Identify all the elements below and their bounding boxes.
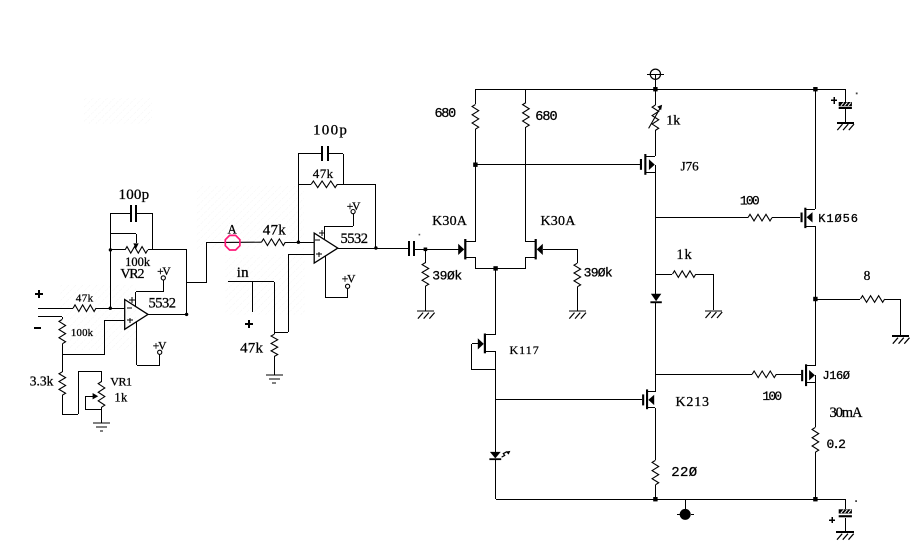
wire K1056 source to output node (815, 226, 817, 299)
wire J160 source to 0.2 (815, 375, 817, 427)
ground (top cap) (837, 122, 854, 124)
wire input + to 47k (38, 308, 73, 310)
resistor 100 (K1056 gate) (748, 214, 772, 221)
resistor 680 (left) (475, 89, 477, 104)
wire feedback right vertical (152, 213, 154, 250)
svg-text:22Ø: 22Ø (671, 465, 697, 481)
node 0.2/rail (813, 497, 817, 501)
ground (right 390k) (569, 310, 586, 312)
wire output node to J160 (815, 299, 817, 366)
svg-text:K30A: K30A (541, 214, 577, 229)
wire node A row (226, 241, 262, 243)
wire 100k bottom to 3.3k (62, 355, 64, 372)
resistor 390k (right gate) (577, 249, 579, 263)
node 220/rail (653, 497, 657, 501)
svg-text:680: 680 (535, 110, 557, 125)
wire in row (228, 281, 274, 283)
svg-text:39Øk: 39Øk (432, 268, 462, 283)
svg-text:5532: 5532 (149, 296, 176, 312)
svg-text:+V: +V (342, 274, 356, 286)
wire 47k to inverting node (96, 308, 125, 310)
wire 1k to J76 drain (655, 130, 657, 156)
op-amp U2 5532 (314, 233, 338, 263)
capacitor electrolytic (top right) (845, 89, 847, 102)
capacitor electrolytic (bottom right) (845, 499, 847, 509)
U2 pin + (noninverting) (316, 253, 322, 255)
potentiometer VR1 1k (98, 382, 105, 408)
wire input - row (38, 316, 62, 318)
node feedback left (109, 248, 112, 251)
capacitor coupling (408, 241, 410, 256)
wire left source to tail (475, 257, 477, 268)
node U1 output (185, 313, 188, 316)
wire J76 gate row (475, 164, 640, 166)
wire 100p right (137, 213, 152, 215)
wire 100p left (110, 213, 130, 215)
resistor 8 (load) (815, 299, 860, 301)
resistor 47k (U1 inverting input) (73, 305, 96, 312)
resistor 100k (input shunt) (59, 319, 66, 343)
wire output to node A (187, 282, 206, 284)
svg-text:30mA: 30mA (830, 405, 863, 421)
wire tail to K117 drain (495, 268, 497, 335)
wire right gate (543, 249, 577, 251)
node output (813, 297, 817, 301)
ground (left 390k) (417, 310, 434, 312)
wire U2 noninverting (288, 254, 314, 256)
wire 100k bottom to noninverting (62, 344, 64, 355)
svg-text:0.2: 0.2 (827, 437, 846, 452)
wire bottom rail (496, 499, 845, 501)
wire diode to K213 drain (655, 303, 657, 392)
resistor 680 (right) (525, 89, 527, 103)
svg-text:1k: 1k (666, 113, 680, 128)
svg-text:100p: 100p (119, 187, 150, 203)
wire K213 source to 220 (655, 408, 657, 460)
svg-text:39Øk: 39Øk (584, 265, 613, 280)
wire K117 gate loop (472, 343, 478, 345)
svg-text:J16Ø: J16Ø (822, 369, 849, 383)
node A (pink octagon) (225, 235, 240, 250)
ground (bottom cap) (836, 531, 854, 533)
svg-text:+V: +V (347, 201, 361, 213)
wire U2 feedback left vertical (298, 154, 300, 242)
wire 47k to U2 inverting (285, 242, 314, 244)
svg-text:100k: 100k (71, 327, 94, 339)
wire right drain up (525, 127, 527, 242)
resistor 47k (in shunt) (271, 334, 278, 356)
wire J160 gate branch (655, 374, 752, 376)
svg-text:47k: 47k (240, 340, 263, 356)
wire left drain up (475, 165, 477, 242)
U1 pin + (top) (129, 299, 135, 301)
wire cap to gate node (415, 249, 459, 251)
wire U1 output (148, 314, 187, 316)
svg-text:K30A: K30A (432, 214, 468, 229)
svg-text:100: 100 (740, 194, 759, 209)
wire output to feedback (186, 250, 188, 314)
U2 pin - (inverting) (315, 239, 320, 241)
node gate left K30A (424, 248, 428, 252)
svg-text:47k: 47k (76, 292, 94, 304)
node left drain / J76 gate (473, 163, 477, 167)
in + terminal stub (252, 282, 254, 312)
wire LED to bottom rail (495, 460, 497, 499)
VR2 wiper arrow (110, 233, 136, 235)
svg-text:+V: +V (153, 341, 167, 353)
resistor 47k (U2 feedback) (311, 181, 337, 188)
U1 pin + (noninverting) (127, 319, 133, 321)
wire 3.3k to VR1 frame (62, 395, 64, 414)
terminal + label (35, 293, 43, 295)
node tail junction (493, 266, 497, 270)
svg-text:in: in (237, 265, 249, 281)
wire K1056 drain to rail (815, 89, 817, 209)
ground (in 47k) (274, 374, 276, 375)
svg-text:K213: K213 (676, 395, 710, 410)
ground (load) (892, 335, 909, 337)
node rail/right column (813, 87, 817, 91)
resistor 390k (left gate) (425, 249, 427, 263)
wire K1056 gate branch (655, 217, 748, 219)
svg-text:100p: 100p (313, 123, 348, 139)
wire feedback left vertical (110, 213, 112, 308)
wire VR1 to ground (101, 407, 103, 422)
svg-text:VR1: VR1 (110, 374, 132, 388)
node feedback/output (374, 246, 377, 249)
svg-text:100: 100 (762, 389, 781, 404)
stray mark (419, 234, 421, 236)
wire 47k to ground (274, 356, 276, 375)
svg-text:K117: K117 (510, 343, 540, 357)
svg-text:47k: 47k (263, 222, 286, 238)
svg-text:K1Ø56: K1Ø56 (818, 212, 859, 226)
wire K117 source down (495, 352, 497, 452)
terminal - label (34, 327, 41, 329)
svg-text:3.3k: 3.3k (30, 374, 54, 389)
svg-text:A: A (228, 223, 237, 237)
resistor 100 (J160 gate) (752, 371, 776, 378)
LED (bias indicator) (490, 452, 501, 459)
op-amp U1 5532 (125, 300, 148, 330)
node rail/power (653, 87, 657, 91)
ground (VR1) (101, 422, 103, 423)
svg-text:5532: 5532 (341, 231, 368, 247)
resistor 3.3k (59, 372, 66, 395)
wire U2 output (338, 248, 408, 250)
resistor 1k to ground (655, 274, 672, 276)
svg-text:VR2: VR2 (120, 267, 144, 282)
U1 pin - (inverting) (127, 307, 132, 309)
node U2 inverting (297, 241, 300, 244)
svg-text:J76: J76 (681, 158, 700, 173)
diode (bias) (651, 294, 661, 302)
svg-text:680: 680 (435, 107, 457, 122)
node inverting U1 (109, 307, 112, 310)
resistor 0.2 (source) (812, 427, 819, 452)
U2 pin + (top) (319, 232, 325, 234)
wire right source to tail (525, 257, 527, 268)
resistor 220 (652, 460, 659, 484)
svg-text:8: 8 (864, 268, 871, 283)
svg-text:1k: 1k (676, 247, 692, 263)
variable resistor 1k (bias) (655, 89, 657, 105)
ground terminal (fat dot) (685, 499, 687, 509)
svg-text:1k: 1k (114, 391, 128, 405)
wire J76 source down (655, 165, 657, 294)
ground (1k) (705, 310, 722, 312)
wire K213 gate row (496, 399, 642, 401)
VR1 wiper arrow (85, 396, 93, 398)
power terminal symbol (650, 69, 660, 79)
potentiometer VR2 100k (feedback) (125, 247, 148, 254)
wire feedback right (343, 154, 345, 184)
wire +V top rail (475, 89, 845, 91)
svg-text:47k: 47k (313, 166, 334, 181)
resistor 47k (A to U2) (262, 239, 286, 246)
